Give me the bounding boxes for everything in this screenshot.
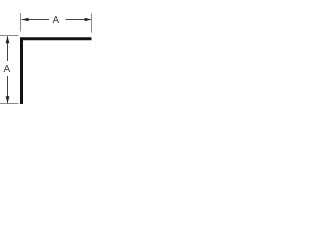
extension line right of top dimension: [91, 14, 93, 33]
arrowhead left: [22, 18, 29, 22]
background: [0, 0, 105, 120]
dimension line left bottom segment: [7, 76, 9, 103]
extension line bottom of left dimension: [0, 103, 19, 105]
arrowhead down: [6, 96, 10, 103]
svg-text:A: A: [52, 15, 59, 26]
angle profile L-shape: [22, 39, 92, 104]
arrowhead right: [85, 18, 92, 22]
dimension line top left segment: [22, 19, 50, 21]
dimension line left top segment: [7, 36, 9, 61]
extension line top of left dimension: [0, 35, 19, 37]
dimension line top right segment: [66, 19, 91, 21]
arrowhead up: [6, 36, 10, 43]
svg-text:A: A: [3, 64, 10, 75]
extension line left of top dimension: [20, 13, 22, 32]
